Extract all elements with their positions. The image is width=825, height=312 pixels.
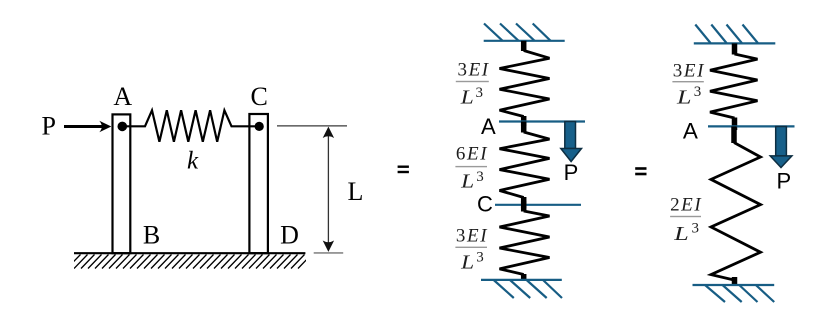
spring k xyxy=(126,110,255,142)
svg-text:3: 3 xyxy=(476,250,484,266)
label 6EI/L^3 xyxy=(455,144,488,193)
equals sign 1 xyxy=(398,166,409,174)
equals sign 2 xyxy=(635,167,646,175)
svg-text:A: A xyxy=(113,82,132,111)
column AB xyxy=(113,114,131,253)
svg-text:L: L xyxy=(673,223,689,245)
svg-text:k: k xyxy=(187,148,199,175)
node A line xyxy=(708,125,795,127)
svg-text:3: 3 xyxy=(476,85,484,101)
label 3EI/L^3 bottom xyxy=(455,225,488,273)
dimension bottom reference line xyxy=(314,252,344,254)
label 3EI/L^3 xyxy=(672,61,705,109)
svg-text:3EI: 3EI xyxy=(457,59,489,80)
bottom support xyxy=(481,280,562,298)
svg-text:L: L xyxy=(460,171,474,193)
node A line xyxy=(499,120,585,122)
top support xyxy=(484,24,565,41)
svg-text:3: 3 xyxy=(476,169,484,185)
svg-text:3EI: 3EI xyxy=(673,61,705,82)
svg-text:A: A xyxy=(683,118,698,143)
column CD xyxy=(249,114,268,253)
label 3EI/L^3 xyxy=(456,59,490,108)
svg-text:P: P xyxy=(41,112,55,141)
svg-text:P: P xyxy=(564,160,579,185)
spring 2EI/L^3 xyxy=(711,126,761,285)
svg-text:3: 3 xyxy=(692,220,700,236)
svg-text:D: D xyxy=(280,221,299,250)
svg-text:B: B xyxy=(143,221,160,250)
spring 6EI/L^3 xyxy=(500,122,550,209)
svg-text:L: L xyxy=(460,251,474,273)
svg-text:L: L xyxy=(676,86,692,108)
label 2EI/L^3 xyxy=(670,195,702,246)
svg-text:L: L xyxy=(348,177,364,206)
ground hatching xyxy=(60,255,312,269)
svg-text:C: C xyxy=(477,192,493,217)
svg-text:A: A xyxy=(481,114,496,139)
spring 3EI/L^3 xyxy=(710,43,758,130)
svg-text:6EI: 6EI xyxy=(456,144,488,165)
spring 3EI/L^3 bottom xyxy=(500,201,550,280)
svg-text:3: 3 xyxy=(694,84,702,100)
svg-text:L: L xyxy=(460,87,474,109)
load arrow P xyxy=(770,127,792,168)
force arrow P xyxy=(64,121,111,133)
node C line xyxy=(495,204,581,206)
bottom support xyxy=(693,285,775,302)
top support xyxy=(694,25,776,44)
svg-text:C: C xyxy=(251,82,268,111)
pin node A xyxy=(118,122,128,132)
ground line xyxy=(74,252,305,254)
svg-text:P: P xyxy=(776,169,791,194)
dimension top reference line xyxy=(277,125,347,127)
dimension line L xyxy=(327,130,329,248)
svg-text:2EI: 2EI xyxy=(670,195,702,216)
load arrow P xyxy=(561,122,582,162)
svg-text:3EI: 3EI xyxy=(456,225,488,246)
pin node C xyxy=(255,122,264,131)
spring 3EI/L^3 top xyxy=(500,41,550,126)
